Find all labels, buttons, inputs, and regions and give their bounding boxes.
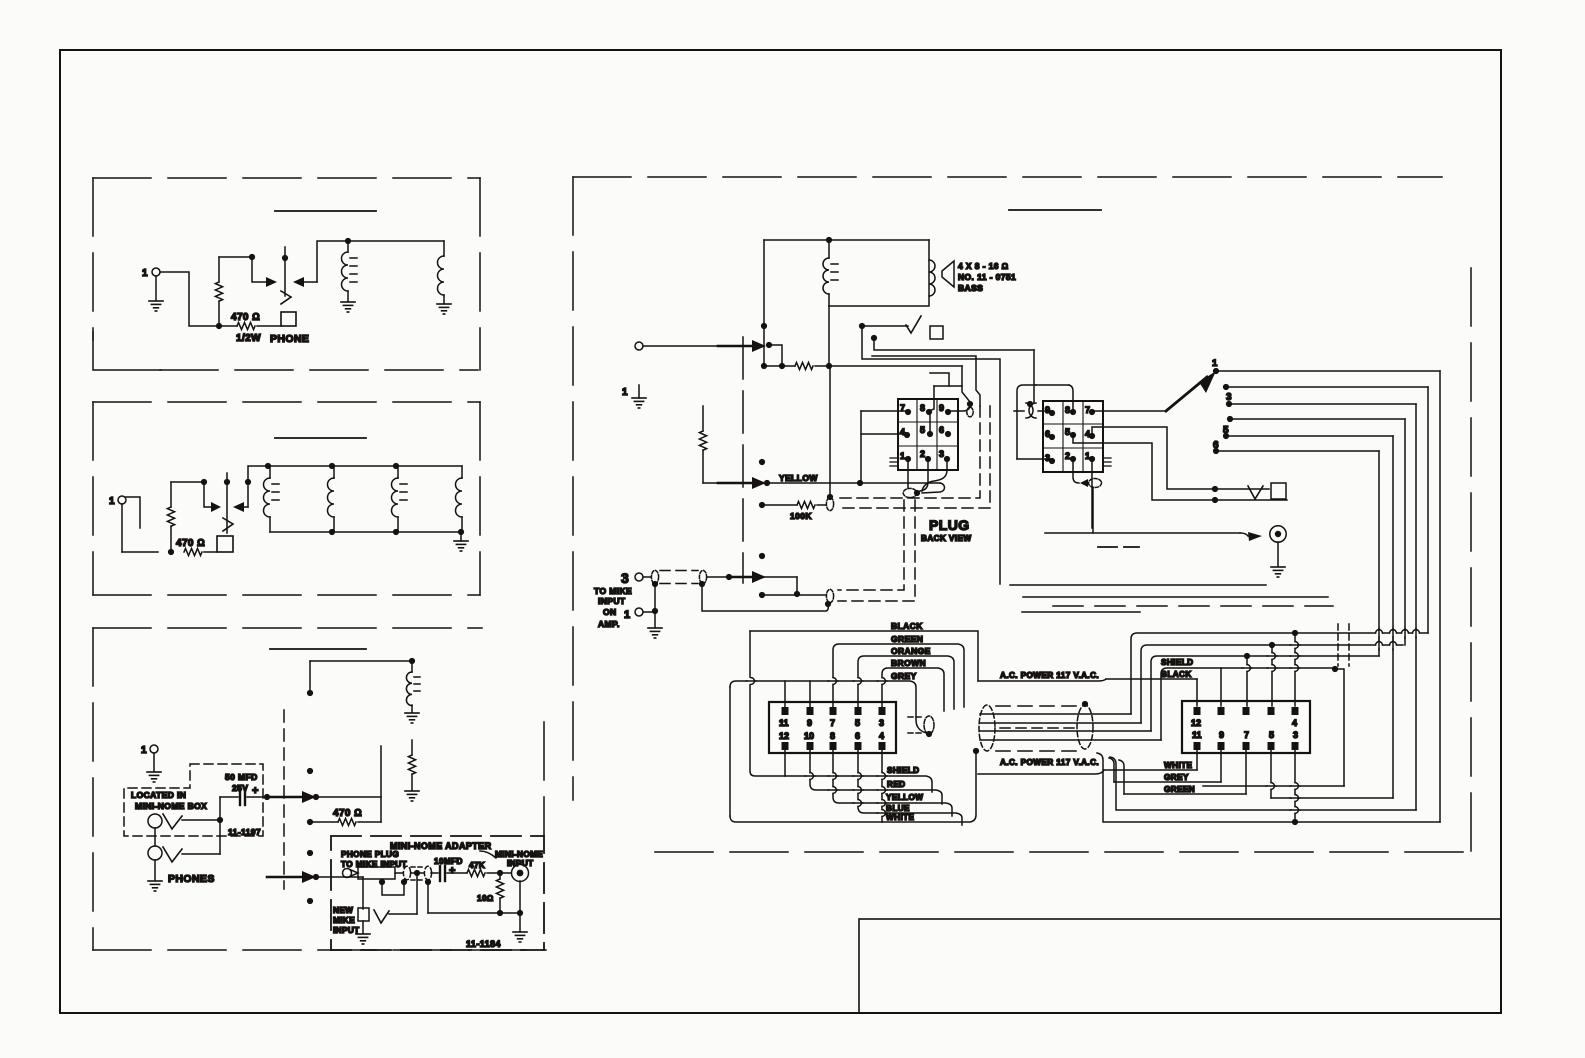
wire row y656 — [1151, 653, 1379, 731]
grid1 body — [898, 399, 958, 470]
phones tip contacts — [163, 797, 223, 862]
resistor 470 ohm (box1) — [216, 312, 281, 344]
wire WHITE (conn2) — [1104, 748, 1197, 770]
jack V + square (right) — [1248, 483, 1286, 499]
wire YELLOW (conn1) — [833, 748, 952, 816]
svg-text:1: 1 — [624, 609, 631, 621]
shield ellipse pair (adapter) — [403, 866, 431, 880]
mike shielded cable entry — [643, 570, 727, 583]
wire wrap y798 — [1271, 748, 1393, 798]
yellow wire drop to shield entry — [827, 366, 833, 500]
svg-text:11: 11 — [779, 718, 789, 728]
svg-text:3: 3 — [939, 449, 944, 459]
grid2 pin2 to insert arrow — [1073, 459, 1102, 533]
bus nodes bottom — [329, 529, 335, 535]
left feed vertical — [761, 240, 767, 369]
svg-text:5: 5 — [855, 718, 860, 728]
bus row 6 — [1213, 440, 1379, 454]
pin9 hook — [948, 407, 970, 411]
coil L1 (box1) — [342, 241, 358, 301]
grid1 pin2 hook down — [920, 459, 928, 491]
mike shield return wire — [699, 581, 831, 611]
grid1 left wires (pins 7,4) — [861, 411, 908, 483]
svg-text:10: 10 — [804, 731, 814, 741]
bus row 1 — [1216, 370, 1440, 372]
wire input to resistor bottom — [160, 272, 219, 326]
node (box2) — [201, 479, 207, 485]
stub row y=373 — [930, 373, 949, 386]
svg-text:10Ω: 10Ω — [477, 894, 494, 903]
blank label line top right — [1009, 209, 1101, 211]
svg-text:BLUE: BLUE — [886, 804, 910, 813]
pin3 riser (conn1) — [0, 0, 1, 1]
svg-text:BROWN: BROWN — [891, 658, 926, 668]
grid1 pin numbers — [900, 403, 944, 461]
grid1 pin dots — [904, 409, 951, 462]
cable left ellipse — [979, 705, 995, 751]
wire GREEN (conn1) — [833, 634, 964, 708]
connector2 top pins — [1194, 707, 1299, 715]
shield oval under grid1 — [903, 488, 920, 497]
coil C (box2) — [392, 466, 408, 532]
svg-text:470 Ω: 470 Ω — [333, 808, 362, 819]
jack ground — [513, 881, 527, 942]
top bus (box2) — [266, 465, 462, 467]
svg-text:BASS: BASS — [958, 283, 983, 293]
resistor (vertical, box1) — [215, 257, 222, 326]
svg-text:6: 6 — [855, 731, 860, 741]
ground (box1 input) — [149, 276, 163, 311]
wire resistor top to switch (box2) — [171, 482, 211, 507]
svg-text:7: 7 — [1244, 730, 1249, 740]
svg-text:NO. 11 - 0751: NO. 11 - 0751 — [958, 272, 1016, 282]
grid2 pin8 riser — [1036, 385, 1073, 412]
resistor 47K — [467, 861, 511, 877]
coil (box3) — [405, 661, 420, 723]
grid2 body — [1043, 401, 1103, 472]
resistor 10 ohm — [477, 873, 504, 913]
svg-text:MIKE: MIKE — [333, 916, 355, 925]
dashed separator vertical x=743 — [742, 337, 744, 583]
bottom bus (box2) — [270, 531, 462, 533]
svg-text:ORANGE: ORANGE — [891, 646, 931, 656]
node (box1 bus) — [345, 238, 351, 244]
wire resistor top to switch — [219, 257, 266, 282]
svg-text:NEW: NEW — [333, 906, 353, 915]
node (box1 switch left) — [249, 254, 255, 260]
vertical wire right of 470 — [380, 746, 382, 822]
plug sleeve links — [379, 879, 407, 895]
svg-text:1: 1 — [142, 268, 148, 279]
svg-text:1: 1 — [622, 387, 628, 398]
svg-text:8: 8 — [920, 403, 925, 413]
svg-text:+: + — [252, 785, 259, 797]
wire to RCA jack — [1045, 532, 1262, 541]
wire y350 — [874, 338, 1034, 350]
input wire with arrow — [643, 340, 785, 369]
grid1 bottom pin1 riser — [907, 459, 909, 488]
svg-text:470 Ω: 470 Ω — [176, 538, 205, 549]
check+square jack (top) — [862, 316, 943, 339]
mike signal to shield oval — [759, 589, 834, 602]
terminal dot column (box3) — [307, 690, 313, 696]
mike cable dashed pair — [838, 500, 915, 601]
speaker voice coil left — [823, 240, 838, 306]
wire to coil (box3 top) — [310, 658, 415, 693]
grid2 pin numbers — [1045, 405, 1090, 463]
switch left arrow — [266, 277, 277, 287]
node between ellipses — [411, 870, 424, 876]
grid2 pin4 wire to jack — [1092, 427, 1269, 492]
grid2 key marks — [1103, 458, 1111, 466]
wire GREEN (conn2) — [1119, 748, 1246, 794]
ground (L2) — [437, 304, 451, 314]
svg-text:SHIELD: SHIELD — [1161, 658, 1193, 667]
switch right arrow (box2) — [233, 502, 248, 512]
phone plug symbol — [343, 867, 404, 879]
RCA jack — [1270, 526, 1286, 577]
wire right contact to bus (box2) — [245, 466, 266, 507]
svg-text:47K: 47K — [469, 861, 485, 870]
coil L2 (box1) — [438, 241, 445, 303]
bus row 5 — [1223, 425, 1393, 439]
svg-text:11-1184: 11-1184 — [466, 939, 501, 949]
speaker coil right — [929, 260, 935, 296]
speaker bottom to resistor node — [826, 306, 832, 369]
svg-text:1: 1 — [1212, 358, 1218, 369]
svg-text:3: 3 — [879, 718, 884, 728]
switch left arrow (box2) — [211, 502, 221, 512]
svg-text:PHONE PLUG: PHONE PLUG — [341, 850, 399, 859]
blank label line box3 — [270, 648, 366, 650]
coil B (box2) — [328, 466, 335, 532]
wire BLUE (conn1) — [858, 748, 962, 825]
wire crossing hops — [805, 628, 1419, 816]
svg-text:100K: 100K — [790, 511, 812, 521]
label phone plug — [341, 850, 407, 869]
connector2 bottom pins — [1194, 742, 1299, 750]
svg-text:4: 4 — [1085, 429, 1090, 439]
bus row 3 — [1226, 392, 1416, 407]
wire GREY (conn2) — [1109, 748, 1221, 782]
phone jack square (box2) — [217, 536, 233, 552]
svg-text:A.C. POWER 117 V.A.C.: A.C. POWER 117 V.A.C. — [1000, 671, 1099, 680]
grid2 pin5 wire — [1073, 435, 1287, 503]
svg-text:6: 6 — [939, 425, 944, 435]
wire RED (conn1) — [810, 748, 942, 804]
blank label line box1 — [275, 210, 376, 212]
mike ground path — [643, 581, 662, 638]
wire row y633 — [1131, 630, 1428, 714]
resistor to ground (box3 mid) — [405, 740, 419, 801]
middle band lines — [1010, 584, 1266, 586]
cable wires — [980, 714, 1161, 740]
terminal 1 (box2) — [109, 496, 140, 552]
svg-text:7: 7 — [1085, 405, 1090, 415]
blank label line box2 — [275, 437, 366, 439]
terminal 1 (box3) — [141, 745, 161, 782]
svg-text:12: 12 — [1191, 718, 1201, 728]
speaker labels — [958, 261, 1016, 293]
svg-text:9: 9 — [1219, 730, 1224, 740]
label 1 + ground (big box) — [622, 385, 646, 408]
svg-text:4 X 8 - 16 Ω: 4 X 8 - 16 Ω — [958, 261, 1009, 271]
speaker top wire — [764, 237, 929, 243]
mike arrow row (box3) — [267, 871, 363, 909]
wire arrow to vertical — [316, 796, 381, 798]
svg-text:11: 11 — [1192, 730, 1202, 740]
svg-text:MINI-NOME ADAPTER: MINI-NOME ADAPTER — [390, 841, 492, 851]
capacitor 10MFD — [431, 857, 467, 881]
bottom wire (box2) — [122, 551, 158, 553]
bridge 386 — [934, 385, 962, 387]
dashed box 3 — [93, 628, 546, 950]
svg-text:BLACK: BLACK — [891, 621, 923, 631]
wire row y645 — [1141, 642, 1403, 723]
svg-text:PHONES: PHONES — [168, 873, 215, 885]
grid1 pin3 drop — [922, 459, 947, 491]
wire BROWN (conn1) — [882, 658, 944, 711]
terminal 3 — [621, 570, 643, 586]
wire SHIELD (conn2) — [1161, 658, 1344, 786]
pin5 riser (grid1) — [929, 412, 931, 434]
new mike contact V — [374, 873, 417, 923]
capacitor 50MFD 25V — [220, 772, 267, 805]
mini-nome input jack — [495, 850, 543, 882]
svg-text:1: 1 — [109, 496, 115, 507]
svg-text:2: 2 — [1065, 451, 1070, 461]
bus row 4 — [1227, 416, 1405, 422]
wire BLACK (conn1) — [750, 621, 978, 776]
mating connector arcs (grid2 pin9) — [1014, 401, 1052, 418]
title block bottom right — [859, 919, 1501, 1013]
terminal 1 (mike gnd) — [624, 608, 643, 621]
svg-text:WHITE: WHITE — [886, 813, 915, 822]
wire y356 — [872, 356, 980, 406]
svg-text:INPUT: INPUT — [507, 859, 534, 868]
svg-text:PLUG: PLUG — [929, 517, 970, 533]
speaker body — [829, 240, 929, 306]
PLUG label — [921, 517, 971, 543]
100K row — [759, 501, 826, 521]
grid2 pin3 wire — [1017, 385, 1052, 459]
wire wrap y822 — [1097, 748, 1440, 825]
wire y359 to long vertical — [862, 326, 1000, 584]
svg-text:3: 3 — [1293, 730, 1298, 740]
resistor 470 ohm (box2) — [176, 538, 217, 556]
cable centre dash — [1000, 727, 1076, 729]
svg-text:WHITE: WHITE — [1164, 761, 1193, 770]
connector1 pin numbers — [779, 718, 884, 741]
dashed outline LOCATED IN MINI-NOME BOX — [124, 764, 263, 836]
wire GREY (conn1) — [730, 671, 929, 816]
ground (L1) — [341, 302, 355, 312]
svg-text:BLACK: BLACK — [1161, 670, 1192, 679]
svg-text:7: 7 — [830, 718, 835, 728]
svg-text:MINI-NOME BOX: MINI-NOME BOX — [135, 801, 207, 811]
terminal dots column (right section) — [759, 459, 765, 465]
dashed shield marks — [1338, 624, 1349, 666]
new mike input — [333, 906, 370, 944]
svg-text:9: 9 — [939, 403, 944, 413]
wire WHITE (conn1) — [730, 748, 979, 822]
phone jack contact (box2) — [223, 473, 233, 533]
to mike labels — [594, 586, 632, 629]
coil D (box2) — [456, 466, 462, 532]
grid2 pin1 drop — [1091, 459, 1093, 528]
svg-text:1: 1 — [900, 451, 905, 461]
connector2 pin numbers — [1191, 718, 1298, 740]
svg-text:+: + — [449, 865, 456, 877]
mike signal arrow — [726, 571, 800, 597]
svg-text:GREY: GREY — [891, 671, 917, 681]
svg-text:1: 1 — [141, 745, 147, 756]
svg-text:5: 5 — [920, 425, 925, 435]
coil A (box2) — [264, 466, 280, 532]
svg-text:3: 3 — [621, 570, 629, 586]
wire BLACK (conn2) — [1106, 670, 1197, 706]
YELLOW arrow row — [703, 473, 940, 489]
selector switch arm — [1166, 358, 1219, 411]
svg-text:2: 2 — [920, 449, 925, 459]
connector1 bottom pins — [782, 742, 886, 750]
cable inner shield oval — [908, 716, 934, 737]
dashed shell grid1 — [837, 406, 990, 508]
svg-text:ON: ON — [603, 607, 617, 617]
switch right arrow — [293, 277, 317, 287]
svg-text:8: 8 — [830, 731, 835, 741]
wire SHIELD (conn1) — [785, 766, 932, 792]
wire to top bus (box1) — [317, 241, 444, 282]
small dashes near plug — [1098, 546, 1117, 548]
adapter title — [390, 841, 496, 858]
dashed box 1 (top-left circuit) — [93, 178, 480, 370]
adapter dashed box — [331, 836, 544, 950]
right verticals — [1379, 371, 1440, 822]
phone jack square (box1) — [270, 312, 309, 345]
wire ORANGE (conn1) — [858, 646, 954, 709]
svg-text:4: 4 — [1292, 718, 1297, 728]
dashed box 2 — [93, 402, 480, 595]
AC POWER top — [978, 671, 1106, 681]
resistor (vertical, box2) — [167, 482, 174, 555]
svg-text:5: 5 — [1065, 427, 1070, 437]
svg-text:YELLOW: YELLOW — [886, 793, 923, 802]
riser to plug pin9 (grid1) — [962, 366, 973, 417]
bus row 2 — [1223, 384, 1428, 390]
terminal 1 (box1) — [142, 268, 160, 279]
node and plug arrow (50MFD out) — [264, 791, 319, 803]
svg-text:A.C. POWER 117 V.A.C.: A.C. POWER 117 V.A.C. — [1000, 758, 1099, 767]
svg-text:PHONE: PHONE — [270, 333, 309, 345]
internal dashed separator (box3) — [283, 710, 285, 889]
connector1 top pins — [782, 707, 886, 715]
svg-text:LOCATED IN: LOCATED IN — [131, 790, 186, 800]
connector2 body — [1182, 701, 1310, 753]
svg-text:INPUT: INPUT — [598, 596, 626, 606]
svg-text:4: 4 — [879, 731, 884, 741]
labels located-in box — [131, 790, 261, 837]
connector1 body — [769, 702, 896, 753]
svg-text:TO MIKE: TO MIKE — [594, 586, 632, 596]
node taps — [859, 323, 865, 329]
svg-text:11-1197: 11-1197 — [228, 827, 261, 837]
svg-text:RED: RED — [887, 780, 906, 789]
svg-text:GREEN: GREEN — [1164, 785, 1195, 794]
svg-text:YELLOW: YELLOW — [779, 473, 818, 483]
pin8 riser — [929, 386, 934, 411]
svg-text:AMP.: AMP. — [598, 619, 620, 629]
feed down to arcs — [1033, 350, 1035, 403]
svg-text:GREEN: GREEN — [891, 634, 923, 644]
phones jacks — [148, 814, 215, 891]
svg-text:MINI-NOME: MINI-NOME — [495, 850, 543, 859]
svg-text:5: 5 — [1269, 730, 1274, 740]
grid2 pin dots — [1049, 409, 1095, 464]
svg-text:8: 8 — [1065, 405, 1070, 415]
svg-text:470 Ω: 470 Ω — [231, 312, 260, 323]
cable right ellipse — [1077, 701, 1093, 749]
AC POWER bottom — [978, 758, 1104, 774]
svg-text:BACK VIEW: BACK VIEW — [921, 534, 971, 543]
svg-text:1/2W: 1/2W — [236, 333, 261, 344]
cable outline dashes — [996, 706, 1078, 751]
470 ohm (box3) — [307, 808, 381, 826]
grid1 key marks — [890, 458, 898, 466]
resistor wire y=366 — [764, 362, 962, 369]
grid2 pin7 to switch pivot — [1092, 410, 1166, 412]
big dashed box (right section) — [573, 177, 1471, 852]
svg-text:12: 12 — [779, 731, 789, 741]
adapter ground bus — [425, 879, 523, 916]
input terminal (big box) — [635, 342, 643, 350]
shield cable entry ellipse (yellow/100k) — [826, 497, 833, 510]
bus nodes — [265, 463, 271, 469]
svg-text:9: 9 — [807, 718, 812, 728]
phone jack contact (box1) — [281, 247, 291, 304]
svg-text:50 MFD: 50 MFD — [225, 772, 258, 782]
speaker cone — [942, 261, 954, 287]
resistor 100k feed (vertical) — [699, 406, 706, 483]
svg-text:GREY: GREY — [1164, 773, 1189, 782]
svg-text:SHIELD: SHIELD — [887, 766, 919, 775]
YELLOW wire hook into shield oval — [922, 483, 945, 493]
ground (box2 bus) — [454, 532, 468, 551]
wire wrap y810 — [1110, 757, 1416, 810]
